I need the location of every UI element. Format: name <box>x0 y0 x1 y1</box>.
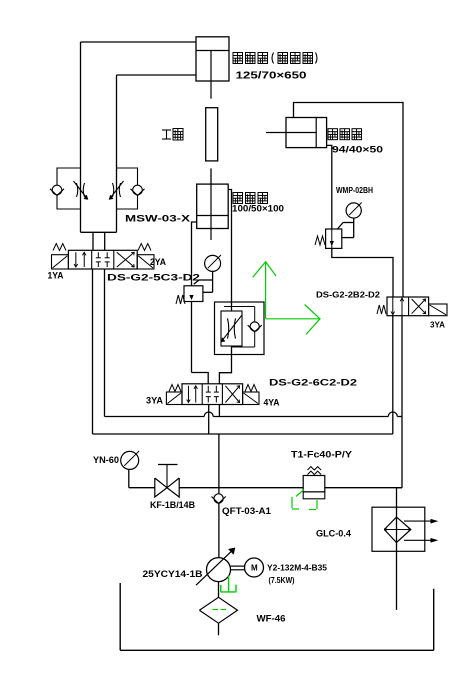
svg-text:3YA: 3YA <box>430 321 445 330</box>
piston rod of plating cylinder <box>210 51 212 82</box>
rod of clamp cylinder <box>266 132 316 134</box>
main line through framed unit <box>231 302 233 311</box>
check valve QFT-03-A1 on pump riser <box>214 494 223 503</box>
svg-text:DS-G2-6C2-D2: DS-G2-6C2-D2 <box>269 378 357 388</box>
piston of clamp cylinder <box>315 118 317 148</box>
svg-text:125/70×650: 125/70×650 <box>236 71 308 82</box>
svg-text:KF-1B/14B: KF-1B/14B <box>150 500 195 510</box>
label: 夹紧缸 <box>328 129 338 140</box>
framed one-way flow control unit (outer frame) <box>215 302 265 355</box>
pump circle <box>207 558 231 582</box>
wire: clamp cap port up and across to right riser <box>294 103 404 298</box>
svg-text:GLC-0.4: GLC-0.4 <box>316 529 351 539</box>
wire: WMP out elbow to valve V3 port A <box>332 248 393 297</box>
shut-off valve KF-1B/14B (bowtie) <box>155 478 167 497</box>
gauge above left relief valve <box>205 255 221 271</box>
wire: jog bar above valve DS-G2-5C3-D2 <box>81 231 117 233</box>
svg-text:4YA: 4YA <box>264 398 280 408</box>
left solenoid of V1 <box>52 255 69 269</box>
green UCS horizontal arrow <box>266 318 320 320</box>
filter suction stub <box>218 623 220 635</box>
cooler leg down from relief line <box>397 487 403 489</box>
pump riser from bus2 down to pump <box>218 434 220 558</box>
left spring of V2 <box>169 385 181 392</box>
throttle of left module <box>77 183 78 197</box>
cooler internal arrow <box>384 529 411 531</box>
coolant arrows out right <box>404 520 436 522</box>
svg-text:WF-46: WF-46 <box>257 614 286 624</box>
wire: jog drop to valve port A <box>92 232 94 250</box>
bus2 pressure line <box>93 433 393 435</box>
svg-text:QFT-03-A1: QFT-03-A1 <box>222 506 271 516</box>
wire: riser A x=80.5 down through left flow module to jog <box>80 42 82 232</box>
wire: jog drop to valve port B <box>104 232 106 250</box>
cylinder: plating cylinder 电镀缸 body <box>196 37 229 81</box>
check valve branch inside frame <box>224 306 255 308</box>
plunger rod through cylinder <box>210 184 212 240</box>
svg-text:3YA: 3YA <box>146 396 164 406</box>
wire through WMP valve <box>331 229 333 248</box>
right spring of V1 <box>138 244 151 251</box>
label: 球子泵 <box>233 193 243 204</box>
wire: left wire continues down to jog <box>191 302 193 373</box>
svg-text:1YA: 1YA <box>48 271 64 281</box>
wire: top line A from left riser to plating cylinder <box>81 41 197 43</box>
svg-text:2YA: 2YA <box>150 257 166 267</box>
relief valve WMP-02BH box <box>326 229 342 248</box>
svg-text:DS-G2-5C3-D2: DS-G2-5C3-D2 <box>107 273 200 283</box>
green dashes inside filter <box>213 609 219 611</box>
wire: V2 port T stub to bus1 <box>218 405 220 417</box>
svg-text:YN-60: YN-60 <box>93 455 119 465</box>
flow control module left: bypass loop <box>57 168 81 185</box>
svg-text:M: M <box>251 564 258 573</box>
svg-text:100/50×100: 100/50×100 <box>232 204 284 214</box>
cooler diamond <box>384 517 411 542</box>
shaft to motor <box>231 565 245 567</box>
flow control module right: bypass loop <box>117 168 138 185</box>
wire: top line B to plating cylinder lower port <box>117 74 197 76</box>
valve DS-G2-5C3-D2 body squares <box>68 250 137 269</box>
spring W of left relief valve <box>176 295 185 304</box>
wire: V1 bottom port T riser down to bus1 <box>104 269 106 417</box>
relief valve on left wire (box) <box>184 286 203 302</box>
gauge stem and pilot connections <box>212 271 214 292</box>
svg-text:WMP-02BH: WMP-02BH <box>336 186 373 195</box>
pressure tap line <box>129 487 155 489</box>
wire: V1 bottom port P riser down to bus2 <box>92 269 94 434</box>
suction filter diamond <box>218 582 220 598</box>
valve DS-G2-6C2-D2 body squares <box>182 384 243 405</box>
svg-text:DS-G2-2B2-D2: DS-G2-2B2-D2 <box>316 291 381 300</box>
svg-text:Y2-132M-4-B35: Y2-132M-4-B35 <box>267 564 328 573</box>
check valve of left module <box>52 185 62 195</box>
svg-text:(7.5KW): (7.5KW) <box>269 576 295 585</box>
right solenoid of V2 <box>243 392 259 405</box>
svg-text:MSW-03-X: MSW-03-X <box>125 214 190 224</box>
valve DS-G2-2B2-D2 body squares <box>387 297 429 316</box>
inner throttle box <box>221 311 242 346</box>
spring W of WMP valve <box>315 236 325 245</box>
svg-text:T1-Fc40-P/Y: T1-Fc40-P/Y <box>291 450 352 460</box>
cylinder: clamp cylinder 夹紧缸 body <box>286 118 327 148</box>
wire: clamp rod port down right side <box>327 145 332 229</box>
tank walls <box>119 583 121 650</box>
gauge of relief WMP <box>346 203 361 218</box>
wire: V3 port B riser down to relief line <box>401 316 403 488</box>
cylinder: plunger cylinder 球子泵 body <box>197 184 229 228</box>
svg-text:94/40×50: 94/40×50 <box>332 145 383 155</box>
solenoid of V3 <box>429 304 447 316</box>
label: 电镀缸（顶槽缸） <box>233 53 243 64</box>
left spring of V1 <box>53 244 66 251</box>
flow arrow inside relief box <box>190 295 193 299</box>
wire: left port of plunger cylinder down <box>192 222 197 286</box>
right spring of V2 <box>245 385 257 392</box>
variable displacement arrow through pump <box>196 549 234 585</box>
label: 工件 <box>162 129 171 131</box>
rod link to plunger cylinder <box>210 168 212 184</box>
wire: framed unit bottom jog to bottom valve port B <box>219 355 231 384</box>
wire: right port of plunger cylinder down to framed flow unit <box>228 190 231 303</box>
wire: left wire jog to bottom valve port A <box>192 373 209 384</box>
green clip mark below pump <box>220 591 236 593</box>
line from valve to pump riser junction and on to T1 relief <box>179 487 303 489</box>
bus1 tank return line with jump arcs <box>105 416 205 418</box>
green UCS vertical arrow <box>265 262 267 319</box>
right solenoid of V1 <box>137 255 154 269</box>
motor circle with M <box>245 558 264 577</box>
green dashed selection marks near T1 <box>291 497 293 508</box>
workpiece rectangle on rod <box>206 108 218 161</box>
left solenoid of V2 <box>166 392 182 405</box>
spring of V3 <box>377 305 386 314</box>
check valve of right module <box>133 185 143 195</box>
throttle of right module <box>113 183 114 197</box>
wire: V2 port P riser down to bus2 (hops bus1) <box>208 405 210 435</box>
wire: V3 port A riser down to bus2 <box>392 316 394 434</box>
wire: riser B x=116.5 down through right flow module <box>116 75 118 232</box>
svg-text:25YCY14-1B: 25YCY14-1B <box>143 569 204 579</box>
